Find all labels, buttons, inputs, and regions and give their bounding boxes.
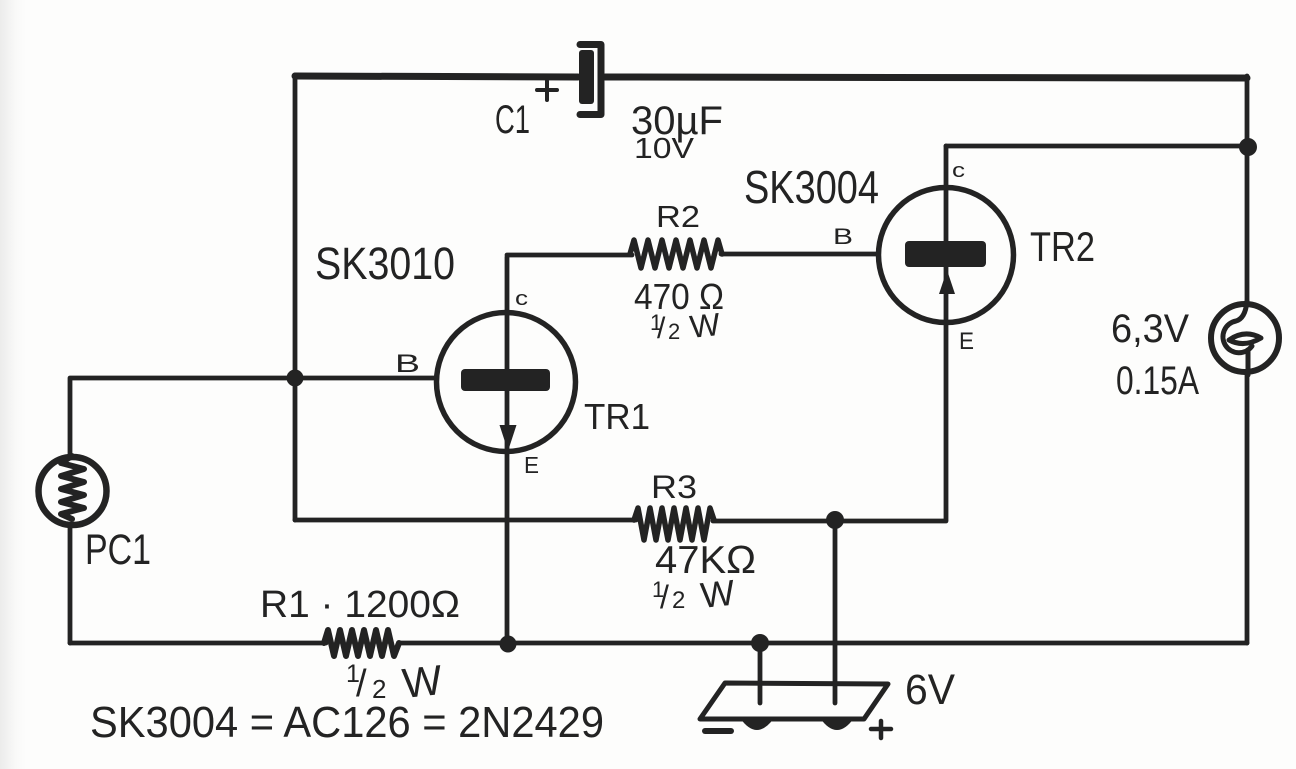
wire bottom rail right of R1: [400, 641, 1247, 646]
wire TR1 vertical (collector-emitter line): [505, 257, 510, 643]
resistor R3 zigzag: [634, 508, 714, 540]
svg-text:E: E: [959, 328, 974, 355]
resistor R2 zigzag: [630, 240, 722, 268]
svg-text:C1: C1: [495, 98, 530, 142]
junction node battery plus / R3 wire: [826, 511, 844, 529]
capacitor C1: [537, 45, 601, 115]
svg-text:W: W: [699, 572, 737, 616]
wire PC1 top lead and base wire to TR1: [70, 378, 434, 455]
wire TR1 collector to R2 left: [507, 253, 632, 258]
transistor TR2: [879, 188, 1014, 323]
svg-text:6V: 6V: [905, 666, 955, 714]
svg-text:W: W: [688, 306, 723, 345]
svg-text:TR2: TR2: [1030, 223, 1095, 270]
svg-text:R2: R2: [656, 199, 700, 234]
junction node base of TR1: [287, 370, 304, 387]
junction node TR2 collector / right rail: [1239, 138, 1257, 156]
svg-text:R3: R3: [651, 469, 697, 505]
wire TR2 collector to right rail: [946, 144, 1247, 149]
svg-text:E: E: [524, 452, 539, 478]
junction node TR1 emitter / bottom rail: [500, 636, 517, 653]
scan left-edge shading: [0, 0, 26, 769]
label 1/2W (R2): [650, 306, 723, 345]
svg-text:6,3V: 6,3V: [1111, 307, 1189, 351]
wire R2 right to TR2 base: [721, 252, 877, 257]
svg-text:SK3010: SK3010: [315, 238, 455, 289]
wire PC1 bottom lead: [68, 527, 73, 643]
wire battery negative lead: [758, 643, 763, 703]
svg-text:B: B: [833, 224, 853, 249]
wire right vertical rail lower (lamp to bottom rail): [1245, 374, 1250, 643]
label 1/2W (R3): [652, 572, 737, 616]
svg-text:PC1: PC1: [85, 526, 151, 574]
wire top rail right of C1: [605, 77, 1247, 78]
label 1/2W (R1): [346, 656, 445, 707]
battery BT1 6V: [700, 683, 891, 738]
wire R3 left segment from left rail: [295, 518, 636, 523]
wire battery positive lead: [833, 520, 838, 703]
wire left vertical rail: [293, 75, 298, 520]
transistor TR1: [437, 313, 576, 452]
wire TR2 vertical (collector-emitter line): [944, 146, 949, 520]
resistor R1 zigzag: [324, 630, 399, 656]
svg-text:c: c: [952, 160, 965, 182]
wire top rail left of C1: [295, 76, 578, 77]
wire R3 right segment to TR2 emitter line: [713, 519, 946, 524]
svg-text:c: c: [515, 288, 528, 310]
wire right vertical rail upper (to lamp): [1245, 76, 1250, 302]
svg-text:B: B: [395, 350, 420, 378]
wire bottom rail left of R1: [70, 641, 326, 646]
svg-text:/: /: [657, 312, 666, 345]
svg-text:R1 · 1200Ω: R1 · 1200Ω: [260, 584, 460, 626]
svg-text:/: /: [660, 579, 669, 615]
svg-text:2: 2: [672, 587, 685, 614]
lamp 6.3V: [1211, 301, 1279, 375]
svg-text:10V: 10V: [634, 133, 695, 165]
svg-text:0.15A: 0.15A: [1116, 359, 1199, 403]
photocell PC1: [39, 456, 107, 525]
svg-text:2: 2: [668, 319, 680, 344]
svg-text:SK3004: SK3004: [744, 161, 879, 213]
junction node battery minus / bottom rail: [751, 634, 769, 652]
svg-text:TR1: TR1: [584, 396, 650, 437]
svg-text:SK3004 = AC126 = 2N2429: SK3004 = AC126 = 2N2429: [90, 698, 604, 747]
